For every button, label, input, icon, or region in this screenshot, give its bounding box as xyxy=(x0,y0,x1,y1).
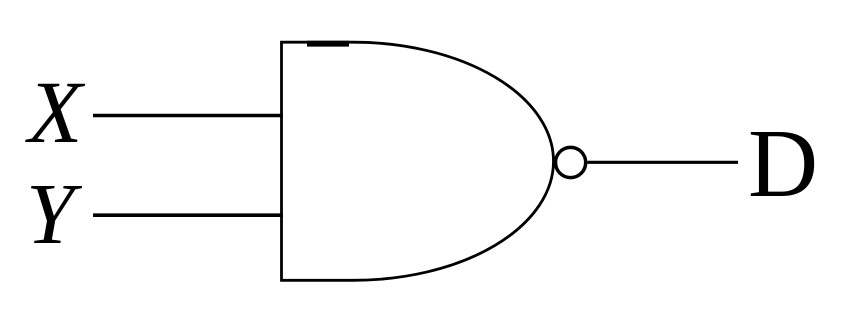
inverter bubble at gate output xyxy=(556,147,586,177)
svg-text:Y: Y xyxy=(26,165,83,262)
wire: input X to gate xyxy=(93,114,283,118)
svg-text:D: D xyxy=(748,110,818,217)
wire: input Y to gate xyxy=(93,213,283,217)
thick bar on gate top edge xyxy=(307,41,349,47)
NAND gate U1 body (AND shape) xyxy=(282,42,554,280)
wire: bubble to output D xyxy=(588,161,739,164)
svg-text:X: X xyxy=(25,64,86,162)
